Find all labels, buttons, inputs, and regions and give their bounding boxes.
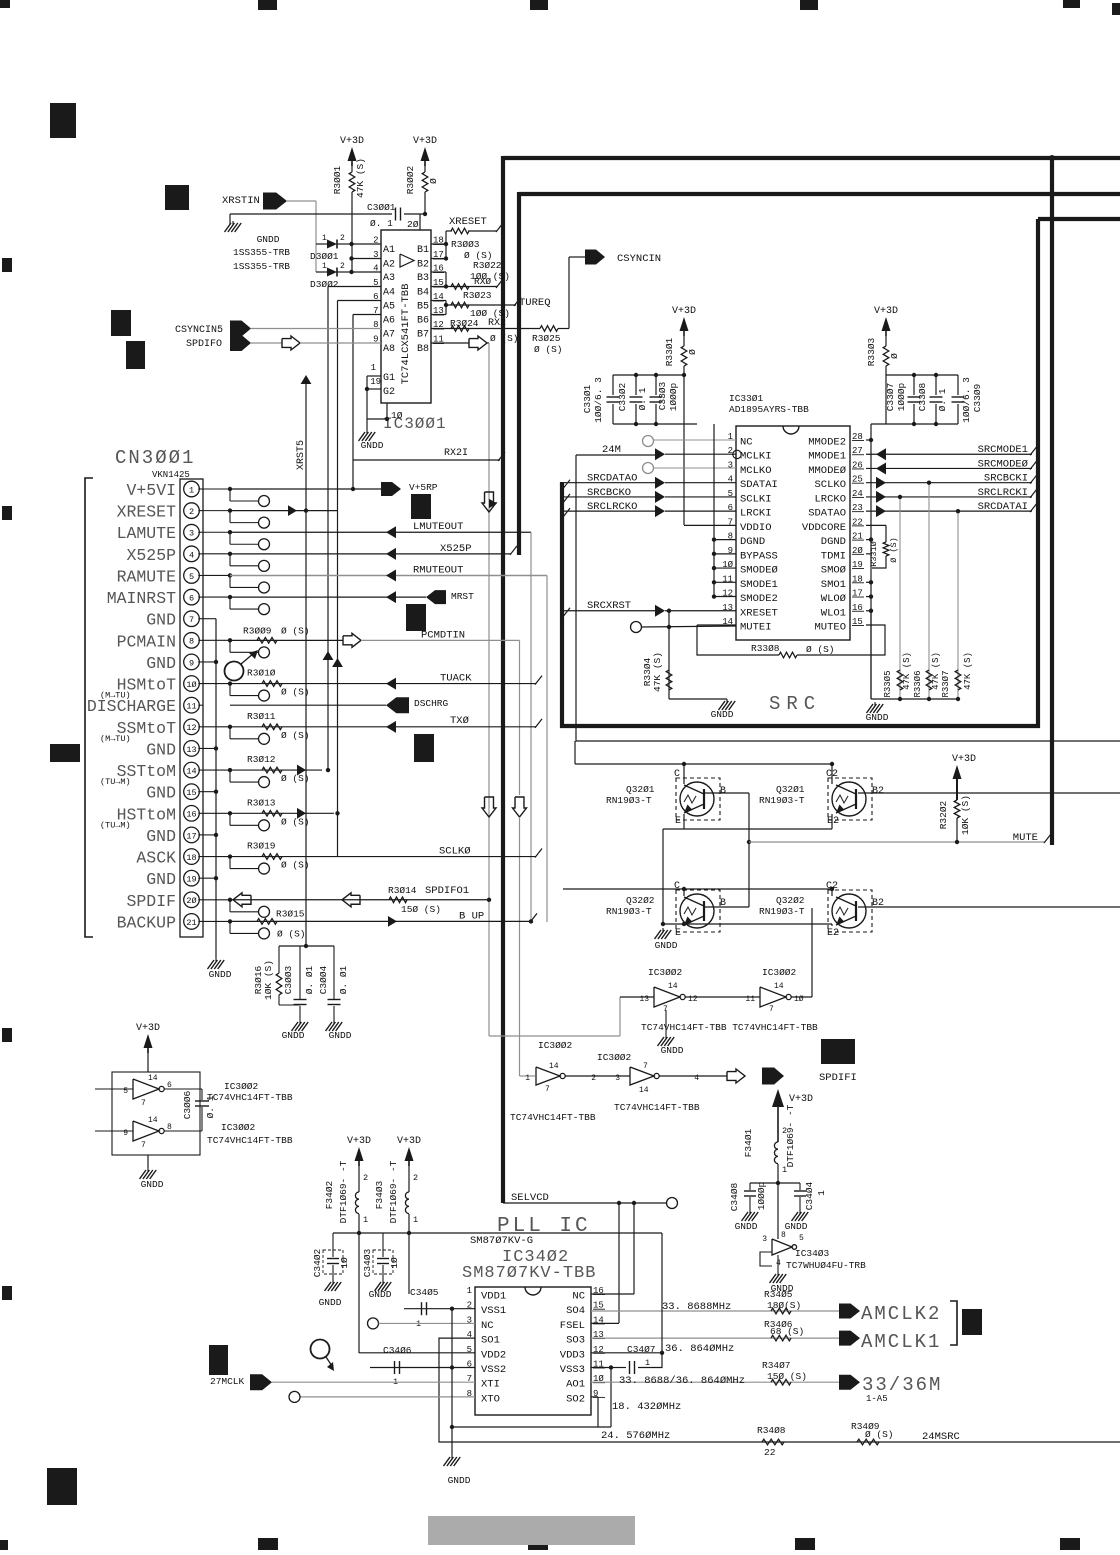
svg-text:C34Ø8: C34Ø8: [729, 1182, 740, 1211]
svg-text:1Ø: 1Ø: [794, 995, 804, 1004]
svg-text:R3ØØ1: R3ØØ1: [332, 165, 343, 194]
svg-text:PCMDTIN: PCMDTIN: [421, 629, 465, 641]
svg-text:TC74LCX541FT-TBB: TC74LCX541FT-TBB: [400, 284, 412, 385]
svg-text:SCLKØ: SCLKØ: [439, 846, 471, 858]
svg-text:7: 7: [141, 1099, 146, 1108]
svg-text:SPDIF: SPDIF: [126, 892, 176, 911]
svg-text:B6: B6: [417, 316, 429, 327]
svg-text:2: 2: [373, 236, 378, 246]
svg-text:RAMUTE: RAMUTE: [117, 567, 177, 586]
svg-text:XRESET: XRESET: [740, 607, 778, 619]
svg-text:C2: C2: [826, 769, 838, 780]
svg-text:SRC: SRC: [769, 693, 821, 715]
svg-text:TC74VHC14FT-TBB: TC74VHC14FT-TBB: [614, 1102, 700, 1113]
svg-text:R33Ø7: R33Ø7: [941, 670, 951, 697]
svg-text:14: 14: [549, 1062, 559, 1071]
svg-text:2Ø: 2Ø: [186, 896, 196, 906]
svg-text:13: 13: [186, 745, 196, 755]
svg-text:Ø (S): Ø (S): [889, 537, 899, 563]
svg-text:Ø (S): Ø (S): [806, 644, 835, 655]
svg-text:3: 3: [762, 1235, 767, 1244]
svg-text:4: 4: [694, 1074, 699, 1083]
svg-text:C3ØØ3: C3ØØ3: [283, 965, 294, 994]
svg-text:MMODEØ: MMODEØ: [808, 465, 846, 477]
svg-text:DTF1Ø69- -T: DTF1Ø69- -T: [338, 1160, 349, 1223]
svg-text:1SS355-TRB: 1SS355-TRB: [233, 247, 290, 258]
svg-text:G2: G2: [383, 387, 395, 398]
svg-text:R3Ø19: R3Ø19: [247, 841, 276, 852]
svg-text:TC74VHC14FT-TBB TC74VHC14FT-TB: TC74VHC14FT-TBB TC74VHC14FT-TBB: [641, 1022, 818, 1033]
svg-text:CN3ØØ1: CN3ØØ1: [115, 447, 195, 469]
svg-text:7: 7: [545, 1085, 550, 1094]
svg-text:1ØK (S): 1ØK (S): [263, 960, 274, 1000]
svg-text:SO4: SO4: [566, 1305, 585, 1317]
svg-text:R33Ø6: R33Ø6: [913, 670, 923, 697]
svg-text:GND: GND: [146, 611, 176, 630]
svg-text:GNDD: GNDD: [735, 1221, 758, 1232]
svg-text:1: 1: [363, 1215, 368, 1225]
svg-text:F34Ø3: F34Ø3: [374, 1180, 385, 1209]
svg-text:15: 15: [186, 788, 196, 798]
svg-text:B2: B2: [417, 260, 429, 271]
svg-text:R33Ø1: R33Ø1: [664, 337, 675, 366]
svg-text:SMODE1: SMODE1: [740, 579, 778, 591]
svg-text:SO3: SO3: [566, 1335, 585, 1347]
svg-text:SDATAI: SDATAI: [740, 479, 778, 491]
svg-text:XRSTIN: XRSTIN: [222, 195, 260, 207]
svg-text:R3Ø25: R3Ø25: [532, 333, 561, 344]
svg-text:IC3ØØ2: IC3ØØ2: [648, 967, 683, 978]
svg-text:R33Ø8: R33Ø8: [751, 643, 780, 654]
svg-text:C34Ø2: C34Ø2: [312, 1248, 323, 1277]
svg-text:TDMI: TDMI: [821, 550, 846, 562]
svg-text:1: 1: [322, 234, 327, 243]
svg-text:R3Ø15: R3Ø15: [276, 908, 305, 919]
svg-text:IC3ØØ2: IC3ØØ2: [762, 967, 797, 978]
svg-text:1SS355-TRB: 1SS355-TRB: [233, 261, 290, 272]
svg-text:9: 9: [123, 1129, 128, 1138]
svg-text:SRCMODE1: SRCMODE1: [978, 444, 1028, 456]
svg-text:C33Ø8: C33Ø8: [917, 382, 928, 411]
svg-text:A6: A6: [383, 316, 395, 327]
svg-text:47K (S): 47K (S): [652, 652, 663, 692]
svg-text:C34Ø6: C34Ø6: [383, 1345, 412, 1356]
svg-text:1: 1: [645, 1358, 650, 1368]
svg-text:Q32Ø2: Q32Ø2: [776, 895, 805, 906]
svg-text:47K (S): 47K (S): [963, 652, 973, 690]
svg-text:V+3D: V+3D: [789, 1094, 813, 1105]
svg-text:1ØØØp: 1ØØØp: [896, 382, 907, 411]
svg-text:C33Ø3: C33Ø3: [657, 381, 668, 410]
svg-text:GNDD: GNDD: [866, 712, 889, 723]
svg-text:C33Ø9: C33Ø9: [972, 383, 983, 412]
svg-text:AMCLK1: AMCLK1: [861, 1331, 941, 1353]
svg-text:3: 3: [615, 1074, 620, 1083]
svg-text:LRCKO: LRCKO: [814, 493, 846, 505]
svg-text:X525P: X525P: [440, 543, 472, 555]
svg-text:NC: NC: [481, 1320, 494, 1332]
svg-text:Ø (S): Ø (S): [865, 1429, 894, 1440]
svg-text:R3Ø14: R3Ø14: [388, 885, 417, 896]
svg-text:SO2: SO2: [566, 1393, 585, 1405]
svg-text:SM87Ø7KV-TBB: SM87Ø7KV-TBB: [462, 1264, 596, 1283]
svg-text:5: 5: [799, 1234, 804, 1243]
svg-text:Ø: Ø: [687, 349, 698, 355]
svg-text:CSYNCIN: CSYNCIN: [617, 253, 661, 265]
svg-text:GND: GND: [146, 654, 176, 673]
svg-text:V+3D: V+3D: [672, 306, 696, 317]
svg-text:1: 1: [816, 1190, 827, 1196]
svg-text:SPDIFO: SPDIFO: [186, 339, 222, 350]
svg-text:RN19Ø3-T: RN19Ø3-T: [759, 795, 805, 806]
svg-text:F34Ø1: F34Ø1: [743, 1128, 754, 1157]
svg-text:V+3D: V+3D: [413, 136, 437, 147]
svg-text:R3Ø23: R3Ø23: [463, 290, 492, 301]
svg-text:TC74VHC14FT-TBB: TC74VHC14FT-TBB: [207, 1092, 293, 1103]
svg-text:GNDD: GNDD: [771, 1283, 794, 1294]
svg-text:(TU→M): (TU→M): [100, 820, 131, 830]
svg-text:Ø: Ø: [428, 178, 439, 184]
svg-text:33. 8688MHz: 33. 8688MHz: [662, 1301, 731, 1313]
svg-text:VSS2: VSS2: [481, 1364, 506, 1376]
svg-text:TC7WHUØ4FU-TRB: TC7WHUØ4FU-TRB: [786, 1260, 866, 1271]
svg-text:CSYNCIN5: CSYNCIN5: [175, 325, 223, 336]
svg-text:GND: GND: [146, 740, 176, 759]
svg-text:TXØ: TXØ: [450, 715, 469, 727]
svg-text:Q32Ø2: Q32Ø2: [626, 895, 655, 906]
svg-text:Ø. Ø1: Ø. Ø1: [304, 965, 315, 994]
svg-text:LAMUTE: LAMUTE: [117, 524, 177, 543]
svg-text:IC33Ø1: IC33Ø1: [729, 393, 764, 404]
svg-text:B5: B5: [417, 302, 429, 313]
svg-text:V+3D: V+3D: [340, 136, 364, 147]
svg-text:11: 11: [186, 702, 196, 712]
svg-text:F34Ø2: F34Ø2: [324, 1180, 335, 1209]
svg-text:C34Ø5: C34Ø5: [410, 1287, 439, 1298]
svg-text:C34Ø3: C34Ø3: [362, 1248, 373, 1277]
svg-text:1Ø: 1Ø: [391, 410, 403, 421]
svg-text:7: 7: [769, 1005, 774, 1014]
svg-text:R34Ø8: R34Ø8: [757, 1425, 786, 1436]
svg-text:27MCLK: 27MCLK: [210, 1376, 245, 1387]
svg-text:Ø: Ø: [889, 353, 900, 359]
svg-text:RX2I: RX2I: [444, 448, 468, 459]
svg-text:XTO: XTO: [481, 1393, 500, 1405]
svg-text:18: 18: [186, 853, 196, 863]
svg-text:IC3ØØ2: IC3ØØ2: [224, 1081, 259, 1092]
svg-text:1ØØ/6. 3: 1ØØ/6. 3: [593, 377, 604, 423]
svg-text:R32Ø2: R32Ø2: [938, 800, 949, 829]
svg-text:B UP: B UP: [459, 910, 484, 922]
svg-text:LMUTEOUT: LMUTEOUT: [413, 521, 463, 533]
svg-text:5: 5: [123, 1087, 128, 1096]
svg-text:GNDD: GNDD: [257, 234, 280, 245]
svg-text:R3Ø13: R3Ø13: [247, 797, 276, 808]
svg-text:A2: A2: [383, 260, 395, 271]
svg-text:GND: GND: [146, 784, 176, 803]
svg-text:VSS1: VSS1: [481, 1305, 506, 1317]
svg-text:SMODEØ: SMODEØ: [740, 565, 778, 577]
svg-text:R3ØØ3: R3ØØ3: [451, 239, 480, 250]
svg-text:2Ø: 2Ø: [407, 219, 419, 230]
svg-text:1: 1: [413, 1215, 418, 1225]
svg-text:IC34Ø3: IC34Ø3: [795, 1248, 830, 1259]
svg-text:3: 3: [373, 250, 378, 260]
svg-text:XRESET: XRESET: [449, 216, 487, 228]
svg-text:SRCMODEØ: SRCMODEØ: [978, 458, 1028, 470]
svg-text:NC: NC: [740, 437, 753, 449]
svg-text:12: 12: [186, 723, 196, 733]
svg-text:SPDIFO1: SPDIFO1: [425, 885, 469, 897]
svg-text:2: 2: [591, 1074, 596, 1083]
svg-text:LRCKI: LRCKI: [740, 508, 772, 520]
svg-text:MCLKI: MCLKI: [740, 451, 772, 463]
svg-text:AO1: AO1: [566, 1379, 585, 1391]
svg-text:1: 1: [525, 1074, 530, 1083]
svg-text:D3ØØ2: D3ØØ2: [310, 279, 339, 290]
svg-text:C2: C2: [826, 881, 838, 892]
svg-text:R3Ø12: R3Ø12: [247, 754, 276, 765]
svg-text:TUREQ: TUREQ: [519, 297, 551, 309]
svg-text:24. 576ØMHz: 24. 576ØMHz: [601, 1430, 670, 1442]
svg-text:C34Ø7: C34Ø7: [627, 1344, 656, 1355]
svg-text:DSCHRG: DSCHRG: [414, 698, 449, 709]
svg-text:GNDD: GNDD: [282, 1030, 305, 1041]
svg-text:Ø (S): Ø (S): [281, 816, 310, 827]
svg-text:14: 14: [186, 766, 196, 776]
svg-text:2: 2: [340, 262, 345, 271]
svg-text:DTF1Ø69- -T: DTF1Ø69- -T: [388, 1160, 399, 1223]
svg-text:B: B: [720, 786, 726, 797]
svg-text:MUTE: MUTE: [1013, 832, 1038, 844]
svg-text:SM87Ø7KV-G: SM87Ø7KV-G: [470, 1235, 533, 1247]
svg-text:MMODE2: MMODE2: [808, 437, 846, 449]
svg-text:B2: B2: [872, 898, 884, 909]
svg-text:GNDD: GNDD: [655, 940, 678, 951]
svg-text:22: 22: [764, 1447, 776, 1458]
svg-text:MRST: MRST: [451, 591, 474, 602]
svg-text:14: 14: [639, 1086, 649, 1095]
svg-text:1: 1: [467, 1286, 472, 1296]
svg-text:GNDD: GNDD: [785, 1221, 808, 1232]
svg-text:18Ø(S): 18Ø(S): [767, 1300, 801, 1311]
svg-text:33/36M: 33/36M: [862, 1374, 942, 1396]
svg-text:4: 4: [373, 264, 378, 274]
svg-text:WLO1: WLO1: [821, 607, 846, 619]
svg-text:SCLKO: SCLKO: [814, 479, 846, 491]
svg-text:XRESET: XRESET: [117, 503, 177, 522]
svg-text:36. 864ØMHz: 36. 864ØMHz: [665, 1343, 734, 1355]
svg-text:R3Ø24: R3Ø24: [450, 318, 479, 329]
svg-text:R3Ø11: R3Ø11: [247, 711, 276, 722]
svg-text:GND: GND: [146, 870, 176, 889]
svg-text:1: 1: [416, 1319, 421, 1329]
svg-text:BYPASS: BYPASS: [740, 550, 778, 562]
svg-text:E: E: [675, 816, 681, 827]
svg-text:2: 2: [189, 507, 194, 517]
svg-text:IC3ØØ2: IC3ØØ2: [221, 1122, 256, 1133]
svg-text:V+3D: V+3D: [397, 1136, 421, 1147]
svg-text:Q32Ø1: Q32Ø1: [776, 784, 805, 795]
svg-text:R3Ø1Ø: R3Ø1Ø: [247, 668, 276, 679]
svg-text:GNDD: GNDD: [711, 709, 734, 720]
svg-text:1ØØ/6. 3: 1ØØ/6. 3: [961, 377, 972, 423]
svg-text:TC74VHC14FT-TBB: TC74VHC14FT-TBB: [510, 1112, 596, 1123]
svg-text:RX2: RX2: [488, 318, 506, 329]
svg-text:SRCBCKI: SRCBCKI: [984, 473, 1028, 485]
svg-text:R33Ø3: R33Ø3: [866, 337, 877, 366]
svg-text:A8: A8: [383, 344, 395, 355]
svg-text:VDD1: VDD1: [481, 1291, 506, 1303]
svg-text:RN19Ø3-T: RN19Ø3-T: [606, 795, 652, 806]
svg-text:GNDD: GNDD: [141, 1179, 164, 1190]
svg-text:RXØ: RXØ: [474, 276, 491, 287]
svg-text:SPDIFI: SPDIFI: [819, 1072, 857, 1084]
svg-text:47K (S): 47K (S): [355, 158, 366, 198]
svg-text:11: 11: [745, 995, 755, 1004]
svg-text:Ø (S): Ø (S): [534, 344, 563, 355]
svg-text:VDD3: VDD3: [560, 1349, 585, 1361]
svg-text:1ØØØp: 1ØØØp: [756, 1181, 767, 1210]
svg-text:(M→TU): (M→TU): [100, 734, 131, 744]
svg-text:A5: A5: [383, 302, 395, 313]
svg-text:1ØK (S): 1ØK (S): [960, 795, 971, 835]
svg-text:GNDD: GNDD: [319, 1297, 342, 1308]
svg-text:TUACK: TUACK: [440, 673, 472, 685]
svg-text:2: 2: [413, 1173, 418, 1183]
svg-text:E: E: [675, 928, 681, 939]
svg-text:8: 8: [189, 637, 194, 647]
svg-text:GNDD: GNDD: [661, 1045, 684, 1056]
svg-text:Ø (S): Ø (S): [490, 333, 519, 344]
svg-text:(TU→M): (TU→M): [100, 777, 131, 787]
svg-text:X525P: X525P: [126, 546, 176, 565]
svg-text:R34Ø7: R34Ø7: [762, 1360, 791, 1371]
svg-text:SRCXRST: SRCXRST: [587, 600, 631, 612]
svg-text:GND: GND: [146, 827, 176, 846]
svg-text:1-A5: 1-A5: [866, 1394, 888, 1404]
svg-text:1: 1: [371, 363, 376, 373]
svg-text:V+3D: V+3D: [952, 754, 976, 765]
svg-text:E2: E2: [827, 816, 839, 827]
svg-text:V+5VI: V+5VI: [126, 481, 176, 500]
svg-text:V+5RP: V+5RP: [409, 482, 438, 493]
svg-text:GNDD: GNDD: [329, 1030, 352, 1041]
svg-text:C3ØØ4: C3ØØ4: [318, 965, 329, 994]
svg-text:R3ØØ2: R3ØØ2: [405, 165, 416, 194]
svg-text:R3ØØ9: R3ØØ9: [243, 625, 272, 636]
svg-text:24MSRC: 24MSRC: [922, 1431, 960, 1443]
svg-text:15Ø (S): 15Ø (S): [401, 904, 441, 915]
svg-text:R33Ø5: R33Ø5: [883, 670, 893, 697]
svg-text:21: 21: [186, 918, 196, 928]
svg-text:RN19Ø3-T: RN19Ø3-T: [606, 906, 652, 917]
svg-text:Ø (S): Ø (S): [277, 928, 306, 939]
svg-text:B7: B7: [417, 330, 429, 341]
svg-text:3: 3: [728, 460, 733, 470]
svg-text:7: 7: [189, 615, 194, 625]
svg-text:R3Ø22: R3Ø22: [473, 260, 502, 271]
svg-text:D3ØØ1: D3ØØ1: [310, 251, 339, 262]
svg-text:1: 1: [782, 1165, 787, 1175]
svg-text:5: 5: [189, 572, 194, 582]
svg-text:14: 14: [148, 1116, 158, 1125]
svg-text:ASCK: ASCK: [136, 849, 176, 868]
svg-text:SMODE2: SMODE2: [740, 593, 778, 605]
svg-text:1: 1: [189, 485, 194, 495]
svg-text:RMUTEOUT: RMUTEOUT: [413, 564, 463, 576]
svg-text:18. 432ØMHz: 18. 432ØMHz: [612, 1401, 681, 1413]
svg-text:4: 4: [189, 550, 194, 560]
svg-text:A3: A3: [383, 273, 395, 284]
svg-text:FSEL: FSEL: [560, 1320, 585, 1332]
svg-text:MCLKO: MCLKO: [740, 465, 772, 477]
svg-text:DGND: DGND: [740, 536, 765, 548]
svg-text:47K (S): 47K (S): [931, 652, 941, 690]
svg-text:VDDIO: VDDIO: [740, 522, 772, 534]
svg-text:MAINRST: MAINRST: [107, 589, 176, 608]
svg-text:Ø (S): Ø (S): [281, 625, 310, 636]
svg-text:VDDCORE: VDDCORE: [802, 522, 846, 534]
svg-text:C33Ø1: C33Ø1: [582, 384, 593, 413]
svg-text:C3ØØ1: C3ØØ1: [367, 202, 396, 213]
svg-text:B: B: [720, 898, 726, 909]
svg-text:B1: B1: [417, 245, 429, 256]
svg-text:SMO1: SMO1: [821, 579, 846, 591]
svg-text:SRCDATAI: SRCDATAI: [978, 501, 1028, 513]
svg-text:SCLKI: SCLKI: [740, 493, 772, 505]
svg-text:68 (S): 68 (S): [770, 1326, 804, 1337]
svg-text:Ø. 1: Ø. 1: [937, 388, 948, 411]
svg-text:IC3ØØ2: IC3ØØ2: [538, 1040, 573, 1051]
svg-text:19: 19: [186, 875, 196, 885]
svg-text:MUTEO: MUTEO: [814, 621, 846, 633]
svg-text:XRST5: XRST5: [296, 440, 307, 470]
svg-text:9: 9: [189, 658, 194, 668]
svg-text:PCMAIN: PCMAIN: [117, 632, 176, 651]
svg-text:Ø. 1: Ø. 1: [370, 218, 393, 229]
svg-text:SRCLRCKI: SRCLRCKI: [978, 487, 1028, 499]
svg-text:14: 14: [148, 1074, 158, 1083]
svg-text:A1: A1: [383, 245, 395, 256]
svg-text:14: 14: [774, 982, 784, 991]
svg-text:(M→TU): (M→TU): [100, 691, 131, 701]
svg-text:47K (S): 47K (S): [902, 652, 912, 690]
svg-text:GNDD: GNDD: [361, 440, 384, 451]
svg-text:Ø. 1: Ø. 1: [637, 387, 648, 410]
svg-text:E2: E2: [827, 928, 839, 939]
svg-text:G1: G1: [383, 373, 395, 384]
svg-text:1: 1: [322, 262, 327, 271]
svg-text:Ø (S): Ø (S): [281, 773, 310, 784]
svg-text:17: 17: [186, 831, 196, 841]
svg-text:C33Ø7: C33Ø7: [885, 383, 896, 412]
svg-text:VSS3: VSS3: [560, 1364, 585, 1376]
svg-text:C: C: [674, 881, 680, 892]
svg-text:Ø (S): Ø (S): [281, 687, 310, 698]
svg-text:Ø (S): Ø (S): [281, 860, 310, 871]
svg-text:A4: A4: [383, 288, 395, 299]
svg-text:GNDD: GNDD: [209, 969, 232, 980]
svg-text:19: 19: [370, 377, 381, 387]
svg-text:MMODE1: MMODE1: [808, 451, 846, 463]
svg-text:24M: 24M: [602, 444, 621, 456]
svg-text:Ø. Ø1: Ø. Ø1: [338, 965, 349, 994]
svg-text:14: 14: [668, 982, 678, 991]
svg-text:V+3D: V+3D: [136, 1023, 160, 1034]
svg-text:6: 6: [189, 594, 194, 604]
svg-text:MUTEI: MUTEI: [740, 621, 772, 633]
